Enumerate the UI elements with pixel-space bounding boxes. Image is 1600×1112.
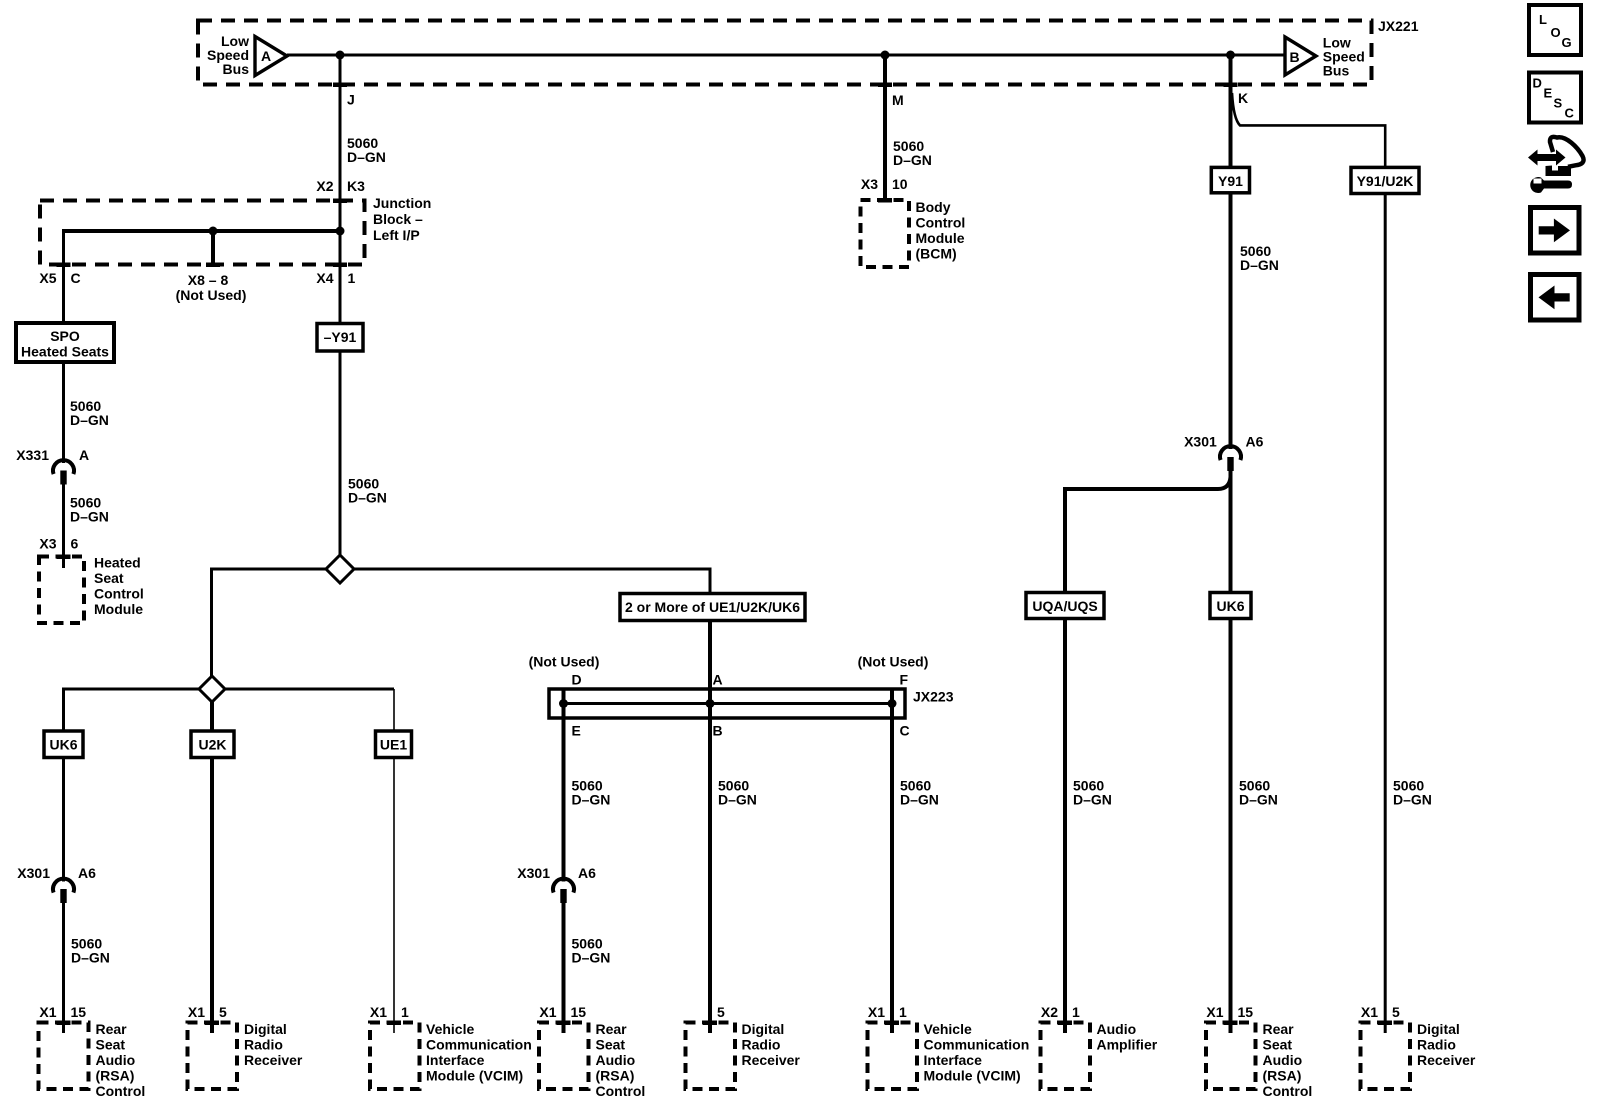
wire splice2 right arm to UE1 — [224, 688, 394, 691]
svg-text:Amplifier: Amplifier — [1097, 1037, 1158, 1053]
tick wire at module 4 top edge — [557, 1021, 571, 1026]
svg-text:D–GN: D–GN — [71, 950, 110, 966]
svg-text:UK6: UK6 — [1216, 598, 1244, 614]
wire 2-or-more box to JX223 — [708, 621, 712, 692]
label pin X3 / 6 — [39, 536, 78, 552]
svg-text:Rear: Rear — [596, 1021, 628, 1037]
svg-text:D–GN: D–GN — [70, 412, 109, 428]
module Heated Seat Control Module dashed box — [39, 557, 84, 624]
svg-text:S: S — [1554, 96, 1563, 111]
svg-text:Module (VCIM): Module (VCIM) — [924, 1068, 1021, 1084]
component SPO Heated Seats box — [16, 323, 114, 362]
svg-text:C: C — [71, 270, 81, 286]
icon wrench — [1530, 177, 1572, 193]
component UE1 option box — [376, 731, 412, 758]
svg-text:D–GN: D–GN — [572, 792, 611, 808]
label 5060 D-GN (B branch) — [718, 778, 757, 808]
wire splice2 bottom to U2K — [210, 700, 214, 731]
svg-text:X1: X1 — [188, 1004, 205, 1020]
component -Y91 option box — [317, 324, 363, 352]
svg-text:D–GN: D–GN — [893, 152, 932, 168]
svg-text:1: 1 — [401, 1004, 409, 1020]
svg-text:10: 10 — [892, 176, 908, 192]
svg-text:Receiver: Receiver — [244, 1052, 303, 1068]
icon hook curve — [1550, 137, 1584, 167]
icon double-headed arrow — [1528, 150, 1566, 166]
svg-text:1: 1 — [1072, 1004, 1080, 1020]
tick M wire at BCM top edge — [878, 198, 892, 203]
label pin X3 / 10 (BCM) — [861, 176, 908, 192]
svg-text:C: C — [900, 723, 910, 739]
svg-text:L: L — [1539, 12, 1547, 27]
svg-text:X5: X5 — [39, 270, 56, 286]
svg-text:X1: X1 — [1206, 1004, 1223, 1020]
svg-text:Vehicle: Vehicle — [426, 1021, 474, 1037]
wire splice1 left arm — [212, 569, 329, 677]
svg-text:Bus: Bus — [1323, 63, 1350, 79]
label X331 / A — [16, 447, 89, 463]
wire X4-1 from junction block down — [339, 231, 342, 324]
component UK6 option box (left) — [44, 731, 83, 758]
label 5060 D-GN (X4 branch) — [348, 476, 387, 506]
icon LOG button — [1529, 5, 1581, 55]
component UK6 option box (right) — [1210, 593, 1251, 619]
svg-text:E: E — [572, 723, 581, 739]
module Digital Radio Receiver 1 dashed box — [188, 1023, 238, 1090]
svg-text:X1: X1 — [39, 1004, 56, 1020]
svg-text:UQA/UQS: UQA/UQS — [1032, 598, 1097, 614]
svg-text:E: E — [1544, 86, 1553, 101]
svg-text:X3: X3 — [861, 176, 878, 192]
module Digital Radio Receiver 3 dashed box — [1361, 1023, 1411, 1090]
svg-text:A: A — [79, 447, 89, 463]
svg-text:J: J — [347, 92, 355, 108]
svg-text:Control: Control — [94, 586, 144, 602]
svg-text:Audio: Audio — [1263, 1052, 1303, 1068]
label Vehicle Communication Interface Module (module 3) — [426, 1021, 532, 1084]
svg-text:1: 1 — [348, 270, 356, 286]
component U2K option box — [191, 731, 234, 758]
label pin X4 / 1 — [316, 270, 355, 286]
module Body Control Module dashed box — [861, 200, 910, 267]
svg-text:Bus: Bus — [223, 61, 250, 77]
junction dot JX223 middle (A/B) — [706, 699, 715, 708]
wire junction block internal bus — [64, 229, 342, 233]
svg-text:A6: A6 — [578, 865, 596, 881]
label 5060 D-GN (J wire) — [347, 135, 386, 165]
label X301 / A6 (Y91 branch) — [1184, 434, 1264, 450]
label Rear Seat Audio (RSA) Control (module 8) — [1263, 1021, 1313, 1099]
svg-text:SPO: SPO — [50, 328, 80, 344]
svg-text:U2K: U2K — [198, 737, 226, 753]
svg-text:15: 15 — [571, 1004, 587, 1020]
module Rear Seat Audio (RSA) Control 1 dashed box — [39, 1023, 89, 1090]
label 5060 D-GN (Y91/U2K branch) — [1393, 778, 1432, 808]
label Rear Seat Audio (RSA) Control (module 1) — [96, 1021, 146, 1099]
label pin X2 / 1 (module 7) — [1041, 1004, 1080, 1020]
module Rear Seat Audio (RSA) Control 2 dashed box — [539, 1023, 589, 1090]
wire UQA/UQS to audio amplifier — [1063, 619, 1067, 1034]
tick wire at module 2 top edge — [205, 1021, 219, 1026]
label pin X1 / 15 (module 1) — [39, 1004, 86, 1020]
tick wire at module 8 top edge — [1224, 1021, 1238, 1026]
wire X5-C down to SPO — [62, 229, 65, 323]
svg-text:Seat: Seat — [94, 570, 124, 586]
label X8 - 8 (Not Used) — [176, 272, 247, 303]
svg-text:A6: A6 — [78, 865, 96, 881]
connector X301 pin A6 inline connector (Y91 branch) — [1220, 446, 1241, 471]
svg-text:Block –: Block – — [373, 211, 423, 227]
wire UE1 to VCIM thin — [393, 758, 395, 1034]
label Vehicle Communication Interface Module (module 6) — [924, 1021, 1030, 1084]
svg-text:D: D — [572, 672, 582, 688]
svg-text:Audio: Audio — [596, 1052, 636, 1068]
svg-text:5: 5 — [1392, 1004, 1400, 1020]
label 5060 D-GN (C branch) — [900, 778, 939, 808]
splice diamond S2 — [199, 676, 225, 702]
wire D-E through bar — [562, 690, 566, 882]
svg-text:Digital: Digital — [1417, 1021, 1460, 1037]
svg-text:Seat: Seat — [96, 1037, 126, 1053]
svg-text:15: 15 — [71, 1004, 87, 1020]
svg-text:Rear: Rear — [1263, 1021, 1295, 1037]
svg-text:15: 15 — [1238, 1004, 1254, 1020]
junction dot JX223 left (D/E) — [559, 699, 568, 708]
svg-text:5: 5 — [717, 1004, 725, 1020]
svg-text:Digital: Digital — [244, 1021, 287, 1037]
svg-text:Left I/P: Left I/P — [373, 227, 420, 243]
svg-text:Radio: Radio — [742, 1037, 781, 1053]
wire U2K to digital radio receiver — [210, 758, 214, 1034]
svg-text:O: O — [1551, 25, 1561, 40]
tick wire at module 9 top edge — [1378, 1021, 1392, 1026]
tick X4 wire at junction box bottom edge — [333, 263, 347, 268]
svg-text:Seat: Seat — [596, 1037, 626, 1053]
label pin X1 / 15 (module 4) — [539, 1004, 586, 1020]
svg-text:6: 6 — [71, 536, 79, 552]
tick wire at module 6 top edge — [885, 1021, 899, 1026]
svg-text:K3: K3 — [347, 178, 365, 194]
splice diamond S1 — [326, 555, 354, 583]
svg-text:5: 5 — [219, 1004, 227, 1020]
label Low Speed Bus (left) — [207, 33, 249, 77]
wire A-B through bar — [708, 689, 712, 1033]
svg-text:C: C — [1565, 106, 1575, 121]
label 5060 D-GN (Y91 branch) — [1240, 243, 1279, 273]
svg-text:A6: A6 — [1246, 434, 1264, 450]
svg-text:(RSA): (RSA) — [96, 1068, 135, 1084]
tick wire at module 1 top edge — [57, 1021, 71, 1026]
module Vehicle Communication Interface Module (VCIM) 2 dashed box — [868, 1023, 918, 1090]
svg-text:(Not Used): (Not Used) — [858, 654, 929, 670]
tick wire at heated seat module top edge — [57, 555, 71, 560]
svg-text:2 or More of UE1/U2K/UK6: 2 or More of UE1/U2K/UK6 — [625, 599, 800, 615]
label 5060 D-GN (E branch lower) — [572, 936, 611, 966]
svg-text:B: B — [713, 723, 723, 739]
svg-text:Receiver: Receiver — [742, 1052, 801, 1068]
wire X301 down to UK6 box (right) — [1229, 471, 1233, 593]
module Vehicle Communication Interface Module (VCIM) 1 dashed box — [370, 1023, 420, 1090]
tick J wire crossing junction block top edge — [333, 199, 347, 204]
svg-text:UK6: UK6 — [49, 737, 77, 753]
label 5060 D-GN (E branch) — [572, 778, 611, 808]
label Audio Amplifier (module 7) — [1097, 1021, 1158, 1053]
connector X301 pin A6 inline connector (left) — [53, 879, 74, 903]
wire branch to UQA/UQS with corner curve — [1065, 477, 1231, 593]
module Digital Radio Receiver 2 dashed box — [686, 1023, 736, 1090]
wire J vertical 5060 D-GN — [339, 55, 342, 231]
junction dot node M on bus — [881, 51, 890, 60]
svg-text:Control: Control — [916, 215, 966, 231]
svg-text:Vehicle: Vehicle — [924, 1021, 972, 1037]
connector X331 pin A inline connector — [53, 460, 74, 484]
svg-text:Control: Control — [596, 1083, 646, 1099]
svg-text:K: K — [1238, 90, 1248, 106]
svg-text:UE1: UE1 — [380, 737, 407, 753]
label Low Speed Bus (right) — [1323, 35, 1365, 79]
svg-text:Interface: Interface — [924, 1052, 983, 1068]
tick wire at module 5 top edge — [703, 1021, 717, 1026]
label 5060 D-GN (M branch) — [893, 138, 932, 168]
svg-text:Body: Body — [916, 199, 951, 215]
svg-text:JX223: JX223 — [913, 689, 954, 705]
svg-text:G: G — [1562, 35, 1572, 50]
svg-text:X1: X1 — [1361, 1004, 1378, 1020]
junction dot JX223 right (F/C) — [888, 699, 897, 708]
wire Y91 down to X301 — [1229, 193, 1233, 449]
svg-text:D: D — [1533, 76, 1542, 91]
svg-text:JX221: JX221 — [1378, 18, 1419, 34]
tick X5 wire at box bottom edge — [57, 263, 71, 268]
svg-text:D–GN: D–GN — [900, 792, 939, 808]
svg-text:X8 – 8: X8 – 8 — [188, 272, 229, 288]
component Y91/U2K option box — [1351, 167, 1419, 193]
svg-text:Module: Module — [916, 230, 965, 246]
icon back arrow button — [1531, 275, 1580, 321]
svg-text:D–GN: D–GN — [1239, 792, 1278, 808]
tick K wire crossing JX221 box edge — [1224, 83, 1238, 88]
svg-text:D–GN: D–GN — [572, 950, 611, 966]
svg-text:Module (VCIM): Module (VCIM) — [426, 1068, 523, 1084]
label 5060 D-GN (below X331) — [70, 495, 109, 525]
svg-text:Audio: Audio — [1097, 1021, 1137, 1037]
svg-text:(Not Used): (Not Used) — [529, 654, 600, 670]
connector JX221 dashed boundary box — [198, 21, 1372, 85]
connector X301 pin A6 inline connector (E branch) — [553, 879, 574, 903]
svg-text:D–GN: D–GN — [1393, 792, 1432, 808]
svg-text:Y91: Y91 — [1218, 173, 1243, 189]
svg-text:(Not Used): (Not Used) — [176, 287, 247, 303]
module Rear Seat Audio (RSA) Control 3 dashed box — [1206, 1023, 1256, 1090]
svg-text:B: B — [1289, 49, 1299, 65]
svg-text:X3: X3 — [39, 536, 56, 552]
wire X301 to RSA module (left) — [62, 903, 65, 1034]
wire SPO to X331 — [62, 362, 65, 463]
label 5060 D-GN (UQA branch) — [1073, 778, 1112, 808]
svg-text:D–GN: D–GN — [347, 149, 386, 165]
label 5060 D-GN (SPO branch) — [70, 398, 109, 428]
svg-text:Receiver: Receiver — [1417, 1052, 1476, 1068]
svg-text:–Y91: –Y91 — [324, 329, 357, 345]
wire K vertical to Y91 — [1229, 55, 1233, 168]
svg-text:D–GN: D–GN — [1240, 257, 1279, 273]
label Junction Block - Left I/P — [373, 195, 431, 243]
svg-text:X1: X1 — [370, 1004, 387, 1020]
svg-text:D–GN: D–GN — [348, 490, 387, 506]
label X301 / A6 (left) — [17, 865, 96, 881]
label X301 / A6 (E branch) — [517, 865, 596, 881]
svg-text:Junction: Junction — [373, 195, 431, 211]
module Audio Amplifier dashed box — [1041, 1023, 1091, 1090]
svg-text:X4: X4 — [316, 270, 333, 286]
icon hook tail bar — [1546, 166, 1572, 177]
label Rear Seat Audio (RSA) Control (module 4) — [596, 1021, 646, 1099]
label Digital Radio Receiver (module 5) — [742, 1021, 801, 1068]
wire UK6 to X301 — [62, 758, 65, 882]
label pin X1 / 1 (module 6) — [868, 1004, 907, 1020]
tick M wire crossing JX221 box edge — [878, 83, 892, 88]
svg-text:X2: X2 — [316, 178, 333, 194]
wire K branch curve to Y91/U2K — [1232, 93, 1385, 168]
tick X8 stub at box bottom edge — [206, 263, 220, 268]
svg-text:(RSA): (RSA) — [596, 1068, 635, 1084]
svg-text:Module: Module — [94, 601, 143, 617]
wire JX223 internal bus — [564, 702, 893, 705]
svg-text:Radio: Radio — [244, 1037, 283, 1053]
component UQA/UQS option box — [1026, 593, 1104, 619]
junction dot J/X4 — [336, 227, 345, 236]
svg-text:X2: X2 — [1041, 1004, 1058, 1020]
wire X331 to heated seat module 5060 D-GN — [62, 484, 65, 568]
label pin X5 / C — [39, 270, 80, 286]
node A (Low Speed Bus left terminal triangle) — [255, 37, 287, 76]
junction dot node K on bus — [1226, 51, 1235, 60]
svg-text:Heated: Heated — [94, 555, 141, 571]
label 5060 D-GN (UK6 right branch) — [1239, 778, 1278, 808]
svg-text:F: F — [900, 672, 909, 688]
wire splice2 left arm to UK6 — [64, 689, 201, 731]
svg-text:(BCM): (BCM) — [916, 246, 957, 262]
svg-text:X301: X301 — [17, 865, 50, 881]
svg-text:1: 1 — [899, 1004, 907, 1020]
label pin X1 / 1 (module 3) — [370, 1004, 409, 1020]
svg-text:D–GN: D–GN — [70, 509, 109, 525]
svg-text:Rear: Rear — [96, 1021, 128, 1037]
component Y91 option box — [1211, 167, 1249, 192]
label Heated Seat Control Module — [94, 555, 144, 618]
wire UK6 right to RSA module — [1229, 619, 1233, 1034]
svg-text:X1: X1 — [868, 1004, 885, 1020]
svg-text:X301: X301 — [1184, 434, 1217, 450]
svg-text:X331: X331 — [16, 447, 49, 463]
connector JX223 bar — [549, 689, 905, 718]
wire X8-8 stub (not used) — [211, 231, 215, 265]
svg-text:Control: Control — [96, 1083, 146, 1099]
component 2 or More of UE1/U2K/UK6 box — [620, 594, 805, 621]
svg-text:X301: X301 — [517, 865, 550, 881]
tick wire at module 3 top edge — [387, 1021, 401, 1026]
svg-text:Audio: Audio — [96, 1052, 136, 1068]
svg-text:Communication: Communication — [924, 1037, 1030, 1053]
wire splice1 right arm to 2-or-more box — [352, 569, 710, 594]
label Digital Radio Receiver (module 9) — [1417, 1021, 1476, 1068]
wire low speed bus horizontal — [287, 54, 1285, 57]
svg-text:Control: Control — [1263, 1083, 1313, 1099]
svg-text:Heated Seats: Heated Seats — [21, 344, 109, 360]
wire F-C through bar — [890, 690, 894, 1033]
svg-text:D–GN: D–GN — [1073, 792, 1112, 808]
label pin X1 / 5 (module 2) — [188, 1004, 227, 1020]
svg-text:M: M — [892, 92, 904, 108]
svg-text:(RSA): (RSA) — [1263, 1068, 1302, 1084]
junction dot X8 stub — [209, 227, 218, 236]
label pin X2 / K3 — [316, 178, 365, 194]
tick J wire crossing JX221 box edge — [333, 83, 347, 88]
label pin X1 / 5 (module 9) — [1361, 1004, 1400, 1020]
svg-text:Seat: Seat — [1263, 1037, 1293, 1053]
tick wire at module 7 top edge — [1058, 1021, 1072, 1026]
icon schematic tools (double arrow, hook, wrench) — [1528, 137, 1584, 193]
svg-text:Digital: Digital — [742, 1021, 785, 1037]
label Digital Radio Receiver (module 2) — [244, 1021, 303, 1068]
icon next arrow button — [1531, 208, 1580, 254]
wire UE1 drop thin — [393, 689, 395, 731]
svg-text:Y91/U2K: Y91/U2K — [1357, 173, 1414, 189]
svg-text:A: A — [261, 48, 271, 64]
svg-text:Interface: Interface — [426, 1052, 485, 1068]
svg-text:Communication: Communication — [426, 1037, 532, 1053]
icon DESC button — [1529, 73, 1581, 123]
svg-text:D–GN: D–GN — [718, 792, 757, 808]
label Body Control Module (BCM) — [916, 199, 966, 262]
label 5060 D-GN (left UK6 branch) — [71, 936, 110, 966]
label pin X1 / 15 (module 8) — [1206, 1004, 1253, 1020]
junction block left I/P dashed box — [40, 201, 365, 265]
wire Y91 option to splice diamond — [339, 351, 342, 556]
node B (Low Speed Bus right terminal triangle) — [1285, 37, 1316, 75]
svg-text:Radio: Radio — [1417, 1037, 1456, 1053]
svg-text:A: A — [713, 672, 723, 688]
junction dot node J on bus — [336, 51, 345, 60]
wire M vertical to BCM — [883, 55, 887, 201]
wire X301 to RSA module (E branch) — [562, 903, 566, 1034]
svg-text:X1: X1 — [539, 1004, 556, 1020]
wire Y91/U2K to digital radio receiver — [1384, 194, 1387, 1034]
